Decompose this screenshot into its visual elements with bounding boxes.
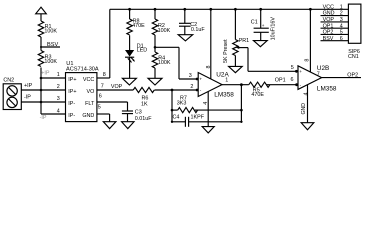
svg-text:100K: 100K bbox=[158, 60, 171, 66]
svg-text:GND: GND bbox=[301, 103, 307, 115]
resistor R5 bbox=[249, 82, 270, 98]
svg-text:5: 5 bbox=[340, 30, 343, 36]
svg-text:FLT: FLT bbox=[85, 101, 95, 107]
wire U2A pin8 up to rail bbox=[206, 9, 212, 79]
svg-text:VCC: VCC bbox=[323, 4, 334, 10]
svg-text:GND: GND bbox=[82, 113, 94, 119]
wire U2A output to R5 bbox=[222, 83, 249, 86]
svg-text:-IP: -IP bbox=[40, 115, 47, 121]
wire U2A pin4 down to ground bbox=[203, 92, 209, 127]
svg-text:1KPF: 1KPF bbox=[191, 115, 205, 121]
wire R3 down through pin1 node to +IP node bbox=[40, 68, 42, 103]
svg-text:7: 7 bbox=[317, 72, 320, 78]
svg-text:IP+: IP+ bbox=[68, 89, 76, 95]
svg-text:8: 8 bbox=[103, 72, 106, 78]
svg-text:4: 4 bbox=[304, 93, 310, 96]
wire U1 pin8 up to VCC rail bbox=[97, 9, 110, 78]
svg-text:0.01uF: 0.01uF bbox=[135, 116, 152, 122]
svg-text:-IP: -IP bbox=[24, 94, 31, 100]
capacitor C3 bbox=[122, 110, 152, 122]
svg-text:3: 3 bbox=[189, 73, 192, 79]
wire CN2 +IP to U1 pin 2 bbox=[21, 83, 65, 91]
wire U2B pin4 down to ground bbox=[301, 85, 309, 123]
VCC rail bbox=[110, 8, 349, 11]
node GND stub CN1 pin2 bbox=[321, 11, 349, 17]
svg-text:1: 1 bbox=[57, 72, 60, 78]
wire PR1 wiper to U2B pin5 bbox=[248, 48, 298, 73]
wire -IP node down to U1 pin 4 bbox=[40, 102, 66, 121]
svg-text:ACS714-30A: ACS714-30A bbox=[66, 67, 99, 73]
svg-text:5K Preset: 5K Preset bbox=[223, 39, 229, 63]
capacitor C1 bbox=[251, 9, 277, 40]
connector CN1 bbox=[348, 4, 361, 60]
ground (C1) bbox=[254, 41, 268, 47]
svg-text:IP-: IP- bbox=[68, 113, 75, 119]
svg-text:CN2: CN2 bbox=[3, 78, 14, 84]
svg-text:1: 1 bbox=[225, 77, 228, 83]
svg-text:IP-: IP- bbox=[68, 101, 75, 107]
wire R1 to R3 bbox=[40, 37, 42, 51]
svg-text:+: + bbox=[262, 23, 265, 28]
wire R6 to U2A pin2 bbox=[155, 89, 199, 92]
svg-text:4: 4 bbox=[57, 108, 60, 114]
ground (U2B pin4) bbox=[301, 123, 314, 130]
IC U1 ACS714-30A bbox=[57, 61, 106, 122]
svg-text:C4: C4 bbox=[173, 115, 180, 121]
svg-text:100K: 100K bbox=[44, 59, 57, 65]
svg-text:VCC: VCC bbox=[83, 77, 94, 83]
svg-text:VO: VO bbox=[87, 89, 95, 95]
wire R2 to divider node bbox=[154, 35, 157, 52]
svg-text:BSV: BSV bbox=[47, 42, 58, 48]
ground (D1) bbox=[122, 78, 136, 85]
VCC power symbol top-left bbox=[36, 7, 47, 21]
resistor R3 bbox=[38, 51, 57, 67]
svg-text:VOP: VOP bbox=[323, 17, 335, 23]
svg-text:100K: 100K bbox=[44, 28, 57, 34]
node VCC stub CN1 pin1 bbox=[323, 4, 343, 10]
wire U1 pin5 GND to ground bbox=[97, 114, 110, 122]
svg-text:VOP: VOP bbox=[111, 84, 123, 90]
svg-text:LM358: LM358 bbox=[317, 86, 337, 93]
svg-text:LM358: LM358 bbox=[214, 92, 234, 99]
feedback wire from output down bbox=[240, 85, 243, 123]
op-amp U2A bbox=[189, 71, 235, 98]
resistor R1 bbox=[38, 21, 57, 37]
svg-text:2: 2 bbox=[57, 84, 60, 90]
svg-text:5: 5 bbox=[291, 65, 294, 71]
svg-text:6: 6 bbox=[291, 77, 294, 83]
ground (C3) bbox=[122, 122, 134, 129]
svg-text:+: + bbox=[299, 69, 302, 74]
svg-text:2: 2 bbox=[340, 11, 343, 17]
svg-text:1K: 1K bbox=[141, 101, 148, 107]
wire U1 pin6 FLT to C3 bbox=[97, 102, 128, 111]
svg-text:6: 6 bbox=[340, 36, 343, 42]
svg-text:OP1: OP1 bbox=[323, 23, 334, 29]
capacitor C4 bbox=[172, 115, 241, 127]
ground (C2) bbox=[178, 35, 193, 41]
svg-text:OP1: OP1 bbox=[275, 78, 286, 84]
svg-text:2: 2 bbox=[190, 84, 193, 90]
svg-text:3: 3 bbox=[57, 96, 60, 102]
wire CN2 -IP to U1 pin 3 bbox=[21, 94, 65, 103]
resistor R8 bbox=[127, 9, 145, 35]
capacitor C2 bbox=[179, 9, 205, 34]
svg-text:8: 8 bbox=[206, 66, 212, 69]
svg-text:4: 4 bbox=[203, 102, 209, 105]
svg-text:0.1uF: 0.1uF bbox=[191, 27, 205, 33]
svg-text:470E: 470E bbox=[132, 23, 145, 29]
svg-text:470E: 470E bbox=[251, 92, 264, 98]
node VOP stub CN1 pin3 bbox=[321, 17, 349, 23]
node VOP / wire U1 pin7 to R6 bbox=[97, 84, 133, 90]
svg-text:100K: 100K bbox=[158, 28, 171, 34]
svg-text:3: 3 bbox=[340, 17, 343, 23]
svg-text:C3: C3 bbox=[135, 110, 142, 116]
wire U2B pin8 up to rail bbox=[304, 9, 310, 72]
wire R8 to D1 bbox=[129, 35, 131, 50]
connector CN2 bbox=[3, 78, 21, 110]
ground (R4) bbox=[148, 78, 162, 85]
svg-text:6: 6 bbox=[99, 94, 102, 100]
ground (U2A pin4) bbox=[202, 127, 214, 133]
svg-text:BSV: BSV bbox=[323, 36, 334, 42]
node OP2 stub CN1 pin5 bbox=[321, 30, 349, 36]
svg-text:10uF/16V: 10uF/16V bbox=[271, 17, 277, 41]
LED D1 bbox=[125, 44, 147, 63]
svg-text:+IP: +IP bbox=[41, 70, 50, 76]
svg-text:+: + bbox=[199, 77, 202, 82]
svg-text:PR1: PR1 bbox=[239, 38, 250, 44]
resistor R2 bbox=[152, 9, 170, 35]
wire D1 to ground bbox=[129, 57, 131, 78]
svg-text:+IP: +IP bbox=[24, 83, 33, 89]
svg-text:7: 7 bbox=[101, 84, 104, 90]
ground (PR1) bbox=[229, 66, 243, 72]
wire R5 / node OP1 to U2B pin6 bbox=[266, 78, 298, 87]
feedback wire inverting node down bbox=[171, 90, 174, 123]
node OP1 stub CN1 pin4 bbox=[321, 23, 349, 29]
svg-text:C1: C1 bbox=[251, 20, 258, 26]
wire to U1 pin 1 bbox=[40, 77, 66, 80]
svg-text:CN1: CN1 bbox=[348, 54, 359, 60]
resistor R6 bbox=[133, 87, 154, 107]
resistor R7 bbox=[172, 96, 241, 113]
svg-text:GND: GND bbox=[323, 11, 335, 17]
wire R4 to ground bbox=[154, 68, 156, 78]
wire divider node to U2A pin3 bbox=[155, 47, 199, 80]
svg-text:4: 4 bbox=[340, 23, 343, 29]
svg-text:1: 1 bbox=[340, 4, 343, 10]
svg-text:OP2: OP2 bbox=[347, 72, 358, 78]
potentiometer PR1 bbox=[223, 9, 249, 63]
svg-text:5: 5 bbox=[98, 105, 101, 111]
svg-text:3K3: 3K3 bbox=[177, 100, 187, 106]
svg-text:8: 8 bbox=[304, 59, 310, 62]
ground (U1 pin5) bbox=[103, 122, 116, 129]
svg-text:LED: LED bbox=[137, 48, 148, 54]
resistor R4 bbox=[152, 52, 171, 68]
wire PR1 to ground bbox=[234, 56, 236, 67]
op-amp U2B bbox=[291, 65, 337, 92]
node BSV stub CN1 pin6 bbox=[321, 36, 349, 42]
node BSV bbox=[40, 42, 60, 48]
wire U2B output / node OP2 bbox=[322, 72, 361, 78]
svg-text:IP+: IP+ bbox=[68, 77, 76, 83]
svg-text:OP2: OP2 bbox=[323, 30, 334, 36]
